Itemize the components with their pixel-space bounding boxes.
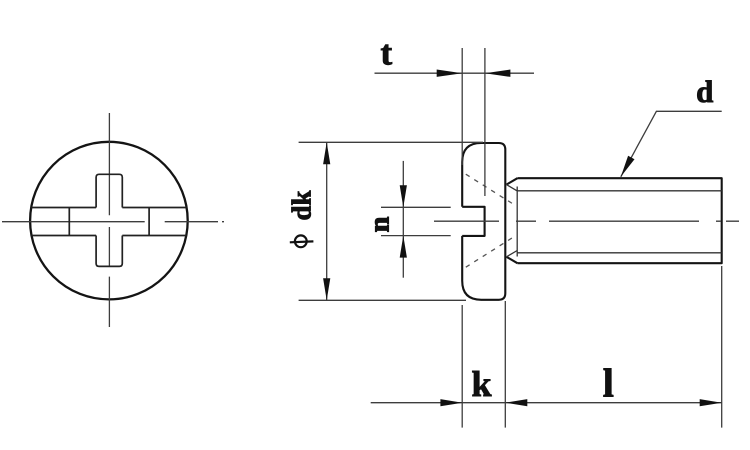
svg-text:k: k — [471, 364, 491, 404]
svg-text:d: d — [696, 74, 713, 109]
svg-text:dk: dk — [286, 190, 316, 220]
svg-text:n: n — [364, 216, 395, 232]
svg-text:t: t — [380, 34, 392, 73]
svg-text:l: l — [603, 361, 614, 406]
